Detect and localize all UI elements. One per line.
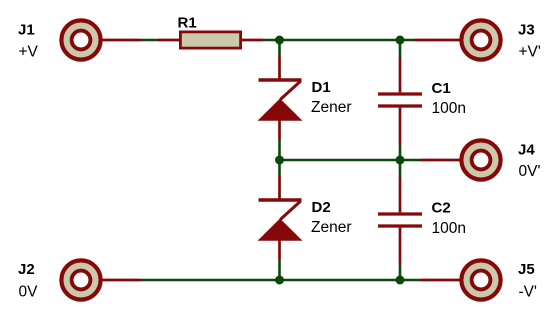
svg-text:C1: C1 bbox=[432, 80, 451, 97]
svg-text:+V': +V' bbox=[519, 44, 541, 61]
wire R1 to J3 (top net) bbox=[263, 39, 415, 42]
wire top junction to D1 bbox=[278, 40, 281, 55]
svg-text:J4: J4 bbox=[518, 141, 535, 158]
svg-text:D1: D1 bbox=[312, 79, 331, 96]
svg-text:Zener: Zener bbox=[311, 219, 352, 236]
zener diode D1 bbox=[258, 55, 303, 139]
svg-text:J1: J1 bbox=[18, 22, 35, 39]
pin R1 left bbox=[158, 39, 180, 42]
svg-text:100n: 100n bbox=[432, 220, 466, 237]
junction node top-D bbox=[275, 36, 284, 45]
wire C2 to bottom junction bbox=[399, 265, 402, 281]
wire top junction to C1 bbox=[399, 40, 402, 57]
svg-text:0V': 0V' bbox=[519, 163, 541, 180]
svg-text:D2: D2 bbox=[312, 199, 331, 216]
pin J5 bbox=[420, 279, 460, 282]
junction node mid-D bbox=[275, 156, 284, 165]
wire mid net D to C bbox=[280, 159, 421, 162]
connector J1 bbox=[61, 20, 100, 59]
zener diode D2 bbox=[258, 175, 303, 259]
connector J3 bbox=[461, 20, 500, 59]
svg-text:+V: +V bbox=[19, 44, 39, 61]
wire J2 to J5 (bottom net) bbox=[141, 279, 421, 282]
wire mid junction to D2 bbox=[278, 160, 281, 175]
pin J4 bbox=[420, 159, 460, 162]
svg-text:100n: 100n bbox=[432, 100, 466, 117]
wire mid junction to C2 bbox=[399, 160, 402, 177]
svg-text:J2: J2 bbox=[18, 261, 35, 278]
svg-text:J3: J3 bbox=[518, 22, 535, 39]
pin J1 bbox=[101, 39, 141, 42]
svg-text:0V: 0V bbox=[19, 284, 39, 301]
connector J2 bbox=[61, 260, 100, 299]
pin J2 bbox=[101, 279, 141, 282]
wire J1 to R1 bbox=[141, 39, 159, 42]
junction node bottom-D bbox=[275, 276, 284, 285]
connector J4 bbox=[461, 140, 500, 179]
wire C1 to mid junction bbox=[399, 145, 402, 161]
junction node mid-C bbox=[396, 156, 405, 165]
svg-text:Zener: Zener bbox=[311, 99, 352, 116]
svg-text:C2: C2 bbox=[432, 200, 451, 217]
junction node bottom-C bbox=[396, 276, 405, 285]
pin J3 bbox=[415, 39, 461, 42]
pin R1 right bbox=[242, 39, 263, 42]
resistor R1 bbox=[180, 32, 240, 48]
svg-text:-V': -V' bbox=[519, 284, 538, 301]
svg-text:R1: R1 bbox=[178, 15, 197, 32]
svg-text:J5: J5 bbox=[518, 261, 535, 278]
junction node top-C bbox=[396, 36, 405, 45]
capacitor C2 bbox=[378, 177, 422, 265]
capacitor C1 bbox=[378, 57, 422, 145]
wire D1 to mid junction bbox=[278, 139, 281, 160]
wire D2 to bottom junction bbox=[278, 259, 281, 280]
connector J5 bbox=[461, 260, 500, 299]
